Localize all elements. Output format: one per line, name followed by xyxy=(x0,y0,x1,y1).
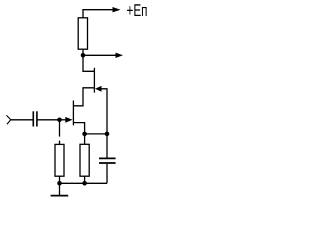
node dot output xyxy=(81,53,86,58)
wire output xyxy=(83,54,116,56)
wire gate node down to R2 xyxy=(59,120,61,137)
wire R1 bottom lead xyxy=(82,49,84,55)
wire VT2 gate down to mid node xyxy=(101,89,107,134)
wire VT2 source to VT1 drain xyxy=(73,88,94,106)
arrow output xyxy=(116,53,124,58)
capacitor C2 top plate xyxy=(99,157,116,159)
wire C1 to gate node xyxy=(38,119,60,121)
node dot mid right xyxy=(105,132,110,137)
ground bar xyxy=(51,195,69,197)
resistor R3 xyxy=(80,144,89,176)
capacitor C2 bottom plate xyxy=(99,162,116,164)
wire R2 bottom lead xyxy=(59,176,61,183)
wire gate-R2 lower segment xyxy=(59,141,61,145)
node dot VT1 source xyxy=(82,132,87,137)
VT2 gate arrow xyxy=(95,86,101,92)
node dot bottom left xyxy=(57,181,62,186)
wire top rail to +En xyxy=(83,10,114,18)
node dot gate xyxy=(57,118,62,123)
wire bottom rail xyxy=(60,182,108,184)
resistor R1 xyxy=(78,18,87,49)
transistor VT2 channel xyxy=(93,68,95,93)
VT1 gate arrow xyxy=(65,117,72,123)
wire input to C1 xyxy=(11,119,33,121)
wire R3 top lead xyxy=(84,134,86,144)
capacitor C1 right plate xyxy=(36,111,38,126)
wire C2 bottom lead xyxy=(106,164,108,184)
wire ground stub xyxy=(59,183,61,195)
wire drain jog to VT2 xyxy=(83,55,94,71)
capacitor C1 left plate xyxy=(32,111,34,126)
transistor VT1 channel xyxy=(72,101,74,126)
node dot bottom R3 xyxy=(82,181,87,186)
input terminal fork xyxy=(6,115,10,124)
wire VT1 source lead xyxy=(73,123,84,134)
wire R3 bottom lead xyxy=(84,176,86,183)
wire mid rail xyxy=(85,133,107,135)
arrow to +En xyxy=(113,7,121,12)
wire C2 top lead xyxy=(106,134,108,158)
wire VT1 gate lead xyxy=(60,119,67,121)
svg-text:+Еп: +Еп xyxy=(127,1,148,20)
resistor R2 xyxy=(55,144,64,176)
